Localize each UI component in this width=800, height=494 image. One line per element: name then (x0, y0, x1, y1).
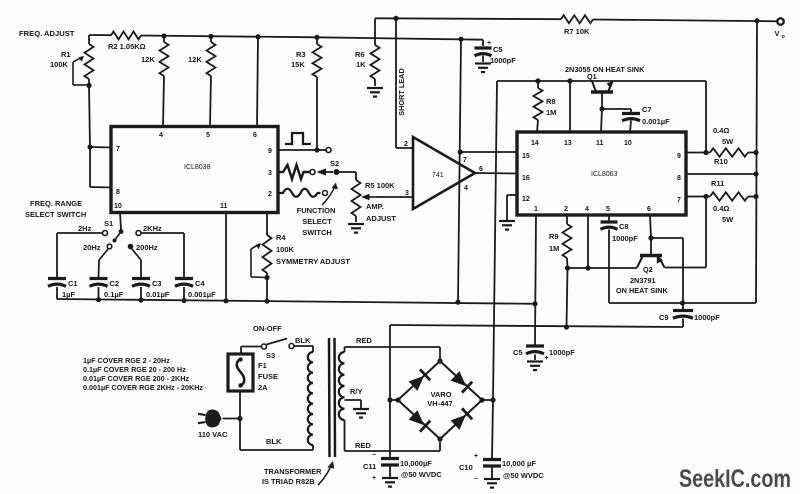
svg-text:BLK: BLK (295, 336, 311, 345)
junction dot C2 on -V rail (96, 297, 101, 302)
wire ICL8038 pin 9 output line (279, 149, 317, 151)
wire S1 200Hz contact to C3 (132, 249, 142, 261)
junction dot R11 right (753, 194, 758, 199)
svg-text:0.1µF COVER RGE 20 - 200 Hz: 0.1µF COVER RGE 20 - 200 Hz (83, 365, 186, 374)
svg-text:1000pF: 1000pF (549, 348, 575, 357)
junction dot R9 on minus line (564, 324, 569, 329)
svg-text:12: 12 (522, 196, 530, 203)
junction dot R1 bottom (86, 83, 91, 88)
capacitor C11 10000uF (363, 452, 442, 482)
wire S1 20Hz contact to C2 (99, 249, 109, 261)
svg-text:7: 7 (463, 157, 467, 164)
svg-text:12K: 12K (141, 55, 155, 64)
wire S3 to primary top (294, 345, 313, 347)
svg-text:VARO: VARO (430, 390, 451, 399)
svg-text:100K: 100K (276, 245, 295, 254)
svg-text:S2: S2 (330, 159, 339, 168)
ground below C10 (484, 478, 500, 480)
svg-text:C9: C9 (659, 313, 669, 322)
svg-text:10,000µF: 10,000µF (400, 459, 432, 468)
svg-text:7: 7 (116, 146, 120, 153)
capacitor C4 0.001uF (175, 279, 216, 301)
svg-text:SELECT: SELECT (302, 217, 332, 226)
svg-text:C1: C1 (68, 279, 78, 288)
svg-text:6: 6 (253, 132, 257, 139)
wire Q1 base to ICL8063 pin 11 (601, 92, 603, 109)
wire ICL8063 pin 4 down (587, 215, 589, 268)
svg-text:AMP.: AMP. (366, 202, 384, 211)
label capacitor range note (83, 356, 203, 392)
svg-text:4: 4 (464, 185, 468, 192)
svg-text:R11: R11 (711, 179, 724, 188)
svg-text:200Hz: 200Hz (136, 243, 158, 252)
potentiometer R4 100K SYMMETRY ADJUST (251, 212, 350, 280)
capacitor C5 1000pF at pin 1 (513, 346, 575, 362)
switch S3 (262, 339, 295, 361)
wire +V power rail of output stage (497, 80, 706, 82)
svg-text:RED: RED (355, 441, 371, 450)
wire S2 common to R5 (337, 171, 357, 173)
resistor R6 1K (355, 45, 380, 86)
wire 741 pin7 branch to ICL8063 pin 15 (460, 151, 517, 153)
svg-text:16: 16 (522, 175, 530, 182)
junction dot C4 on -V rail (181, 298, 186, 303)
junction dot C3 on -V rail (138, 298, 143, 303)
svg-text:2: 2 (564, 206, 568, 213)
resistor R3 15K (291, 37, 322, 150)
svg-text:RED: RED (356, 336, 372, 345)
junction dot pin 4 on base line (585, 265, 590, 270)
svg-text:+: + (487, 40, 491, 47)
sine wave symbol on ICL8038 pin 2 line (279, 189, 321, 197)
svg-text:R4: R4 (276, 233, 286, 242)
svg-text:20Hz: 20Hz (83, 243, 101, 252)
label TRANSFORMER IS TRIAD R82B with arrow (262, 461, 334, 486)
junction dot pin9/R10 (703, 150, 708, 155)
svg-text:1K: 1K (356, 60, 366, 69)
svg-text:V: V (775, 29, 780, 38)
wire secondary bottom RED to bridge (345, 450, 441, 452)
svg-text:R8: R8 (546, 97, 556, 106)
capacitor C5 1000pF top decoupling (475, 40, 517, 65)
junction dot bridge top (437, 358, 442, 363)
wire Q2 collector loop down to C9 (651, 237, 683, 239)
junction dot R3 top (314, 35, 319, 40)
junction dot Q1 base / C7 (599, 106, 604, 111)
svg-text:1µF COVER RGE 2 - 20Hz: 1µF COVER RGE 2 - 20Hz (83, 356, 170, 365)
square wave symbol at pin 9 (285, 133, 311, 144)
junction dot R8 top (535, 78, 540, 83)
wire ICL8063 pin 1 column down to bottom C5 (535, 215, 536, 345)
junction dot loop on output bottom run (680, 300, 685, 305)
svg-text:1000pF: 1000pF (490, 56, 516, 65)
wire S3 to fuse (241, 346, 262, 348)
svg-text:R2 1.05KΩ: R2 1.05KΩ (108, 42, 146, 51)
svg-text:0.4Ω: 0.4Ω (713, 126, 729, 135)
terminal Vo (775, 18, 786, 40)
contact S2 square-wave throw (326, 148, 331, 153)
junction dot R9 bottom (565, 265, 570, 270)
wire base line R9 to Q2 (568, 267, 638, 269)
node Vo top output line (375, 17, 561, 20)
svg-text:R6: R6 (355, 50, 365, 59)
svg-text:−: − (372, 452, 376, 459)
svg-text:1µF: 1µF (62, 290, 75, 299)
ground below C11 (382, 477, 398, 479)
svg-text:Q2: Q2 (643, 265, 653, 274)
triangle wave symbol on ICL8038 pin 3 line (279, 165, 310, 179)
svg-text:ADJUST: ADJUST (366, 214, 396, 223)
svg-text:4: 4 (159, 132, 163, 139)
ground below bottom C5 (527, 360, 543, 362)
svg-text:TRANSFORMER: TRANSFORMER (264, 467, 322, 476)
wire +V column from bridge up to power rail (493, 81, 497, 400)
svg-text:10: 10 (624, 140, 632, 147)
svg-text:2: 2 (404, 141, 408, 148)
svg-text:C5: C5 (513, 348, 523, 357)
svg-text:2A: 2A (258, 383, 268, 392)
ground at center tap (353, 408, 369, 410)
wire power rail right corner down to pin 9 line (705, 81, 707, 152)
svg-text:ON-OFF: ON-OFF (253, 324, 282, 333)
svg-text:S1: S1 (104, 219, 113, 228)
svg-text:C8: C8 (619, 222, 629, 231)
svg-text:0.01µF: 0.01µF (146, 290, 170, 299)
wire branch connecting Vo line to +V rail and R6 (374, 18, 376, 45)
resistor R11 0.4ohm 5W (710, 179, 756, 224)
svg-text:1000pF: 1000pF (612, 234, 638, 243)
svg-text:3: 3 (268, 170, 272, 177)
junction dot plug wire (237, 416, 242, 421)
svg-text:1000pF: 1000pF (694, 313, 720, 322)
diode D1 top-left (408, 369, 430, 391)
wire secondary top RED to bridge (345, 346, 441, 348)
wire ICL8063 pin 9 to R10 (686, 152, 710, 154)
svg-text:2: 2 (268, 191, 272, 198)
svg-text:8: 8 (677, 175, 681, 182)
svg-text:11: 11 (220, 203, 228, 210)
junction dot pin13 column (567, 78, 572, 83)
svg-text:C2: C2 (110, 279, 120, 288)
svg-text:F1: F1 (258, 361, 267, 370)
wire bridge plus to +V column (482, 399, 493, 401)
junction dot Vo line at output column (754, 18, 759, 23)
wire -V column down to C11 (389, 400, 391, 457)
wire rail to ICL8038 pin 6 (257, 37, 258, 126)
svg-text:15: 15 (522, 153, 530, 160)
resistor R8 1M (534, 81, 557, 132)
junction dot bridge bottom (437, 436, 442, 441)
svg-text:15K: 15K (291, 60, 305, 69)
op-amp U2 741 (404, 137, 483, 209)
svg-text:11: 11 (596, 140, 604, 147)
transformer T1 primary winding (308, 346, 313, 450)
capacitor C2 0.1uF (90, 279, 124, 300)
transistor Q2 2N3791 (637, 238, 665, 274)
wire plug to fuse column (223, 418, 241, 420)
diode D2 top-right (450, 370, 472, 392)
junction dot bridge right (479, 397, 484, 402)
resistor 12K second (188, 36, 216, 126)
svg-text:SHORT LEAD: SHORT LEAD (397, 68, 406, 115)
junction dot pin9/R3 (314, 147, 319, 152)
svg-text:FREQ. RANGE: FREQ. RANGE (30, 199, 82, 208)
svg-text:SELECT SWITCH: SELECT SWITCH (25, 210, 86, 219)
svg-text:−: − (474, 476, 478, 483)
wire S1 2Hz contact to C1 (57, 232, 103, 234)
svg-text:C10: C10 (459, 463, 473, 472)
svg-text:9: 9 (677, 153, 681, 160)
svg-text:R9: R9 (549, 232, 559, 241)
svg-text:C5: C5 (493, 45, 503, 54)
svg-text:3: 3 (405, 190, 409, 197)
wire bridge minus to -V column (390, 399, 398, 401)
wire R5 wiper to 741 pin 3 (377, 196, 413, 198)
svg-text:R/Y: R/Y (350, 387, 363, 396)
capacitor C1 1uF (48, 279, 78, 300)
junction dot Q2 collector node (648, 235, 653, 240)
transformer core lines (328, 338, 331, 457)
svg-text:6: 6 (479, 166, 483, 173)
IC U1 ICL8038 box (111, 127, 278, 213)
wire Q2 emitter up to pin7/R11 junction (665, 267, 707, 269)
ground below R6 (367, 87, 383, 89)
svg-text:2KHz: 2KHz (143, 224, 162, 233)
svg-text:@50 WVDC: @50 WVDC (401, 470, 442, 479)
label FUNCTION SELECT SWITCH with arrow (297, 183, 338, 238)
wire -V rail under ICL8038 (57, 299, 535, 304)
capacitor C8 1000pF (601, 215, 639, 303)
ground below R5 (348, 223, 364, 225)
potentiometer R5 100K AMP ADJUST (352, 180, 397, 223)
bridge rectifier VARO VH-447 (398, 361, 482, 439)
junction dot 741 V+ column on rail (458, 37, 463, 42)
junction dot bridge left (395, 397, 400, 402)
wire ICL8063 pin 8 to output column (686, 173, 756, 175)
wire output column from Vo line down (756, 21, 757, 303)
junction dot 12K-1 top (161, 33, 166, 38)
contact S2 sine throw (323, 191, 328, 196)
wire ICL8038 pin10 to S1 pole (120, 212, 121, 230)
wire rail to ICL8063 pin 13 (569, 81, 571, 132)
wire R4 to -V rail (266, 278, 268, 302)
svg-text:FREQ. ADJUST: FREQ. ADJUST (19, 29, 75, 38)
junction dot on Vo line at short-lead branch (393, 16, 398, 21)
junction dot 741 pin4 on -V rail (455, 300, 460, 305)
svg-text:SWITCH: SWITCH (302, 228, 332, 237)
svg-text:R5 100K: R5 100K (365, 181, 395, 190)
svg-text:13: 13 (564, 140, 572, 147)
svg-text:R7 10K: R7 10K (564, 27, 590, 36)
capacitor C9 1000pF (659, 311, 720, 328)
junction dot R10 right (753, 150, 758, 155)
capacitor C7 0.001uF (622, 105, 670, 132)
svg-text:10,000 µF: 10,000 µF (502, 459, 536, 468)
wire 741 output to ICL8063 pin 16 (475, 172, 517, 175)
svg-text:ON HEAT SINK: ON HEAT SINK (616, 286, 668, 295)
wire ICL8063 pin 12 to ground (507, 194, 517, 196)
junction dot bridge minus column (387, 397, 392, 402)
transistor Q1 2N3055 (587, 72, 614, 92)
svg-text:8: 8 (116, 189, 120, 196)
svg-text:+: + (474, 453, 478, 460)
resistor R2 1.05K (108, 31, 146, 51)
svg-text:1: 1 (534, 206, 538, 213)
svg-text:741: 741 (432, 172, 444, 179)
ground below top C5 (475, 62, 491, 64)
wire output bottom run to C8 branch (609, 302, 756, 304)
svg-text:2N3055 ON HEAT SINK: 2N3055 ON HEAT SINK (565, 65, 645, 74)
svg-text:VH-447: VH-447 (427, 399, 452, 408)
transformer T1 secondary winding (339, 347, 345, 451)
svg-text:110 VAC: 110 VAC (198, 430, 228, 439)
junction dot pin6 column (255, 34, 260, 39)
svg-text:IS TRIAD R82B: IS TRIAD R82B (262, 477, 315, 486)
svg-text:C7: C7 (642, 105, 652, 114)
fuse F1 2A (228, 354, 278, 392)
svg-text:ICL8063: ICL8063 (591, 171, 618, 178)
junction dot S2 common (334, 169, 340, 175)
svg-text:FUNCTION: FUNCTION (297, 206, 336, 215)
junction dot pin7/R11/Q2 emitter branch (703, 194, 708, 199)
svg-text:2Hz: 2Hz (78, 224, 92, 233)
svg-text:12K: 12K (188, 55, 202, 64)
wire pin9 to contact (317, 149, 326, 151)
svg-text:FUSE: FUSE (258, 372, 278, 381)
svg-text:4: 4 (585, 206, 589, 213)
wire R1 down to pins 7 and 8 of ICL8038 (89, 86, 90, 148)
junction dot pin8 column (753, 171, 758, 176)
wire +V column down to C10 (492, 400, 493, 458)
svg-text:0.1µF: 0.1µF (104, 290, 124, 299)
resistor R9 1M (549, 215, 572, 268)
svg-text:5: 5 (206, 132, 210, 139)
svg-text:R1: R1 (61, 50, 71, 59)
junction dot pin11 column on -V rail (223, 298, 228, 303)
svg-text:2N3791: 2N3791 (630, 276, 656, 285)
resistor 12K first (141, 36, 169, 126)
svg-text:5: 5 (606, 206, 610, 213)
ground at pin 12 (499, 220, 515, 222)
wire R9 junction down to minus line (567, 268, 568, 327)
svg-text:14: 14 (531, 140, 539, 147)
plug 110 VAC (198, 410, 228, 439)
svg-text:7: 7 (677, 197, 681, 204)
IC U3 ICL8063 box (517, 132, 686, 215)
svg-text:10: 10 (114, 203, 122, 210)
svg-text:@50 WVDC: @50 WVDC (503, 471, 544, 480)
svg-text:1M: 1M (546, 108, 556, 117)
wire -V corner column to bridge left (389, 325, 391, 400)
junction dot R4 on -V rail (264, 299, 269, 304)
wire ICL8038 pin 11 down to -V rail (225, 212, 227, 301)
wire bottom BLK run to primary (240, 449, 313, 451)
svg-text:0.001µF: 0.001µF (642, 117, 670, 126)
junction dot bridge plus column (490, 397, 495, 402)
svg-text:100K: 100K (50, 60, 69, 69)
junction dot at pin 7 branch (87, 144, 92, 149)
svg-text:R3: R3 (296, 50, 306, 59)
svg-text:R10: R10 (714, 157, 728, 166)
svg-text:0.001µF COVER RGE 2KHz - 20KHz: 0.001µF COVER RGE 2KHz - 20KHz (83, 383, 203, 392)
svg-text:C4: C4 (195, 279, 205, 288)
resistor R10 0.4ohm 5W (710, 126, 756, 166)
switch S2 wiper arrow (317, 159, 340, 176)
svg-text:0.01µF COVER RGE 200 - 2KHz: 0.01µF COVER RGE 200 - 2KHz (83, 374, 189, 383)
junction dot pin1 column on -V rail (532, 301, 537, 306)
junction dot 12K-2 top (208, 34, 213, 39)
potentiometer R1 100K (50, 35, 94, 86)
wire -V line from bridge minus to C9 (390, 325, 683, 327)
contact S2 triangle throw (310, 170, 315, 175)
resistor R7 10K (561, 15, 593, 36)
wire fuse bottom down (239, 391, 241, 450)
svg-text:C3: C3 (152, 279, 162, 288)
svg-text:6: 6 (647, 206, 651, 213)
svg-text:+: + (545, 355, 549, 362)
wire secondary center tap R/Y (345, 399, 362, 401)
svg-text:+: + (372, 475, 376, 482)
svg-text:S3: S3 (266, 351, 275, 360)
wire base junction to C7 (602, 108, 631, 110)
wire +V rail (89, 34, 111, 36)
diode D4 bottom-right (450, 408, 472, 430)
capacitor C3 0.01uF (132, 279, 170, 301)
wire SHORT LEAD from Vo line to 741 pin 2 (395, 18, 397, 148)
wire S1 2KHz contact to C4 (141, 232, 184, 234)
wire ICL8063 pin 7 to R11 (686, 196, 710, 198)
svg-text:0.4Ω: 0.4Ω (713, 204, 729, 213)
svg-text:1M: 1M (549, 244, 559, 253)
capacitor C10 10000uF (459, 453, 544, 483)
wire 741 supply column through pins 7 and 4 (458, 39, 461, 302)
wire ICL8063 pin 6 down to Q2 collector node (650, 215, 651, 238)
svg-text:5W: 5W (722, 215, 734, 224)
diode D3 bottom-left (408, 409, 430, 431)
svg-text:SeekIC.com: SeekIC.com (679, 465, 791, 493)
svg-text:0.001µF: 0.001µF (188, 290, 216, 299)
svg-text:SYMMETRY ADJUST: SYMMETRY ADJUST (276, 257, 350, 266)
svg-text:5W: 5W (722, 137, 734, 146)
switch S1 rotary (78, 219, 162, 252)
junction dot 741 pin 7 branch (458, 149, 463, 154)
svg-text:9: 9 (268, 148, 272, 155)
svg-text:ICL8038: ICL8038 (184, 164, 211, 171)
svg-text:BLK: BLK (266, 437, 282, 446)
svg-text:C11: C11 (363, 462, 376, 471)
